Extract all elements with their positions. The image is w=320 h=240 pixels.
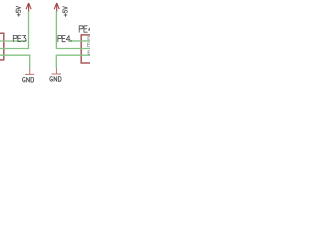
wire: +5V #2 down and right to box (net +5V) xyxy=(56,11,90,48)
connector J2 (right component box) xyxy=(81,35,90,63)
pin name fragment E6 (right box, bottom pin) xyxy=(88,51,92,54)
wire: PE3 stub from left box xyxy=(0,40,27,42)
wire: PE4 stub to right box xyxy=(71,40,90,42)
pin name fragment E4 (right box, top pin) xyxy=(88,36,93,39)
wire: left box to GND #1 xyxy=(0,55,30,68)
pin name fragment E5 (right box, middle pin) xyxy=(88,43,93,47)
power symbol +5V #1 (arrow) xyxy=(26,3,31,12)
label +5V #2 xyxy=(63,7,68,17)
label +5V #1 xyxy=(16,6,21,16)
ground GND #2 xyxy=(52,68,62,75)
label GND #1 xyxy=(22,77,33,82)
connector J1 (left component box) xyxy=(0,33,4,60)
wire: +5V #1 down and left to box (net +5V) xyxy=(0,11,29,48)
power symbol +5V #2 (arrow) xyxy=(54,3,59,12)
net label PE3 xyxy=(13,35,26,41)
label GND #2 xyxy=(50,77,61,82)
wire: corner down to GND #2 and right into box xyxy=(56,55,90,67)
wire end dot on PE4 stub xyxy=(70,40,72,42)
ground GND #1 xyxy=(25,68,34,74)
net label PE5 (cut at right edge) xyxy=(79,26,92,32)
net label PE4 xyxy=(58,36,70,42)
